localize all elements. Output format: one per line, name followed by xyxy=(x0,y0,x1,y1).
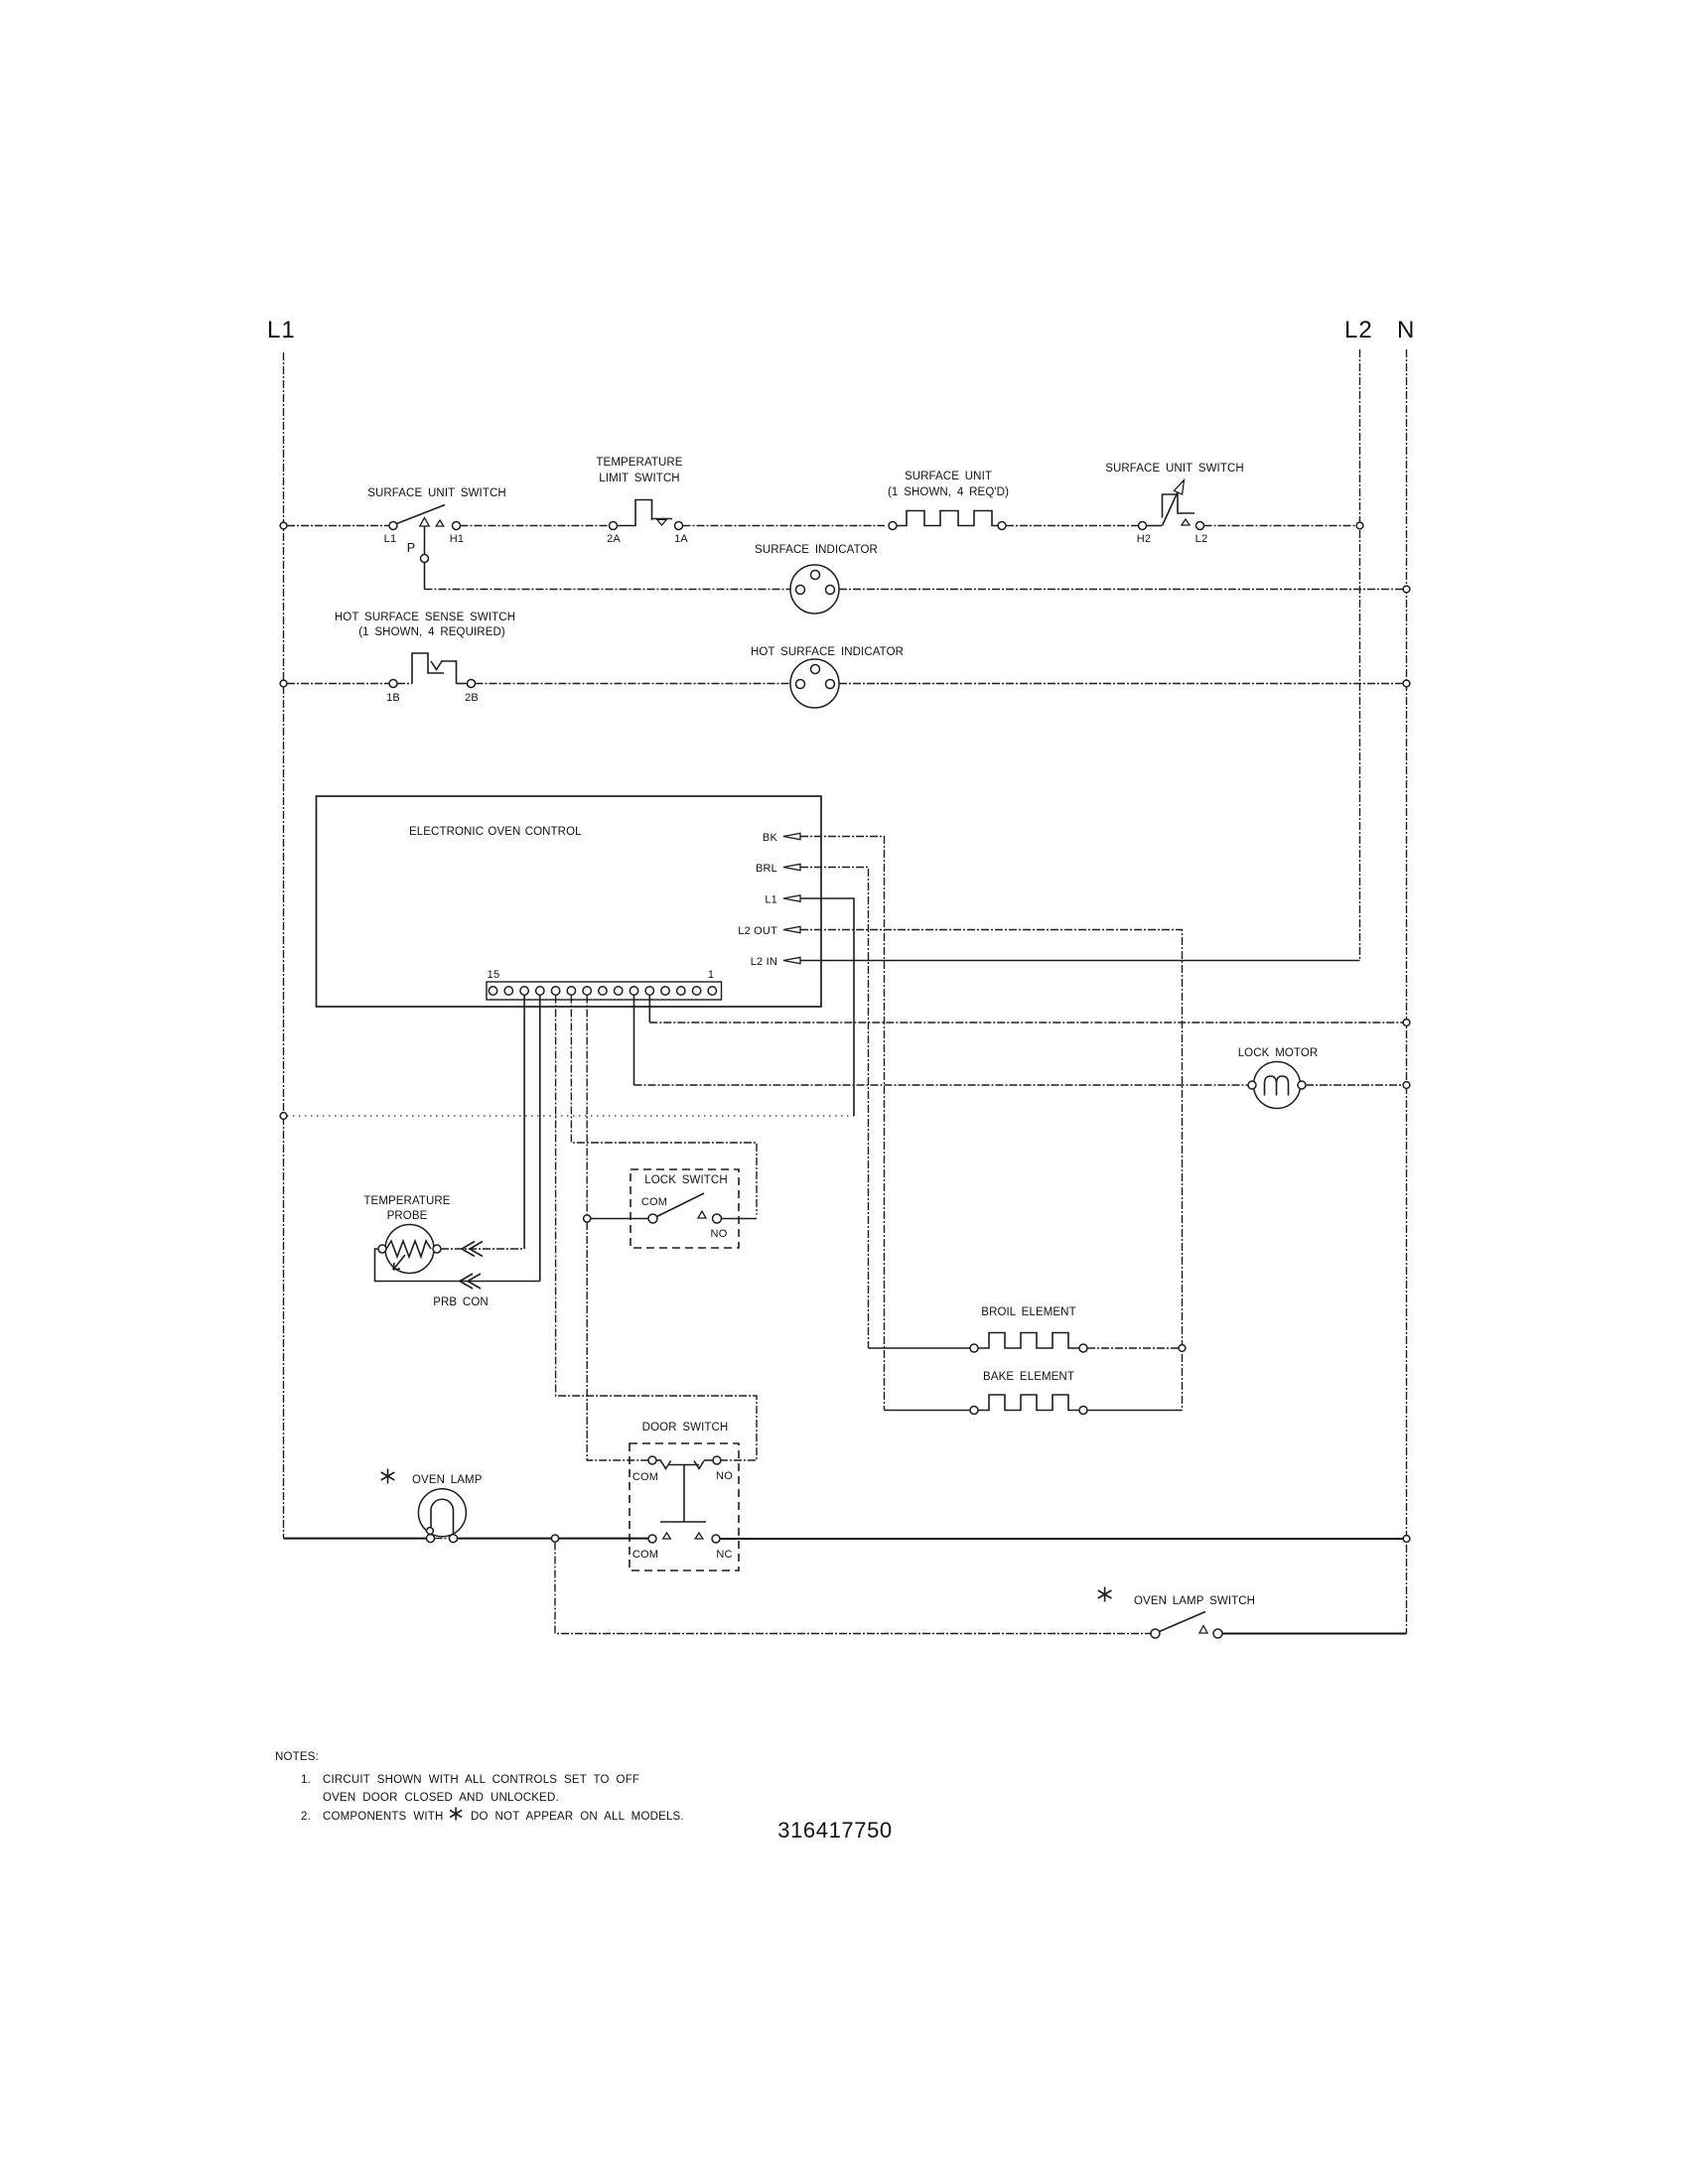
svg-text:H2: H2 xyxy=(1137,533,1151,545)
wire row1 to L2 bus xyxy=(1204,525,1357,527)
svg-text:TEMPERATURE: TEMPERATURE xyxy=(596,457,682,469)
wire BK from EOC to bake element xyxy=(800,837,885,1411)
wire bottom rail from L1 bus to oven lamp xyxy=(284,1538,427,1540)
svg-text:(1 SHOWN, 4 REQUIRED): (1 SHOWN, 4 REQUIRED) xyxy=(358,626,505,638)
svg-text:OVEN DOOR CLOSED AND UNLOCKED.: OVEN DOOR CLOSED AND UNLOCKED. xyxy=(323,1792,559,1804)
wire L1 of EOC to L1 bus xyxy=(287,1115,854,1117)
wire row2 right to N bus xyxy=(839,683,1403,685)
wire pin12 to temperature probe bottom xyxy=(539,996,541,1282)
svg-text:TEMPERATURE: TEMPERATURE xyxy=(363,1195,450,1207)
svg-text:COMPONENTS WITH: COMPONENTS WITH xyxy=(323,1811,444,1823)
node N bus hot surface indicator junction xyxy=(1403,680,1410,687)
lamp HOT SURFACE INDICATOR xyxy=(751,646,904,708)
switch TEMPERATURE LIMIT SWITCH xyxy=(596,457,688,545)
node P tap terminal xyxy=(421,555,429,563)
svg-text:NO: NO xyxy=(711,1228,728,1240)
svg-text:BROIL ELEMENT: BROIL ELEMENT xyxy=(981,1306,1075,1318)
wire N bus xyxy=(1406,349,1408,1634)
wire surface indicator row left xyxy=(425,589,791,591)
wire bottom rail under lamp xyxy=(435,1538,450,1540)
svg-text:LOCK SWITCH: LOCK SWITCH xyxy=(644,1174,727,1186)
svg-text:HOT SURFACE INDICATOR: HOT SURFACE INDICATOR xyxy=(751,646,904,658)
wire bottom rail door switch NC to N bus xyxy=(720,1538,1403,1540)
switch DOOR SWITCH xyxy=(630,1422,739,1570)
connector PRB CON chevrons bottom xyxy=(460,1274,481,1289)
wire L1 bus xyxy=(283,352,285,1539)
motor LOCK MOTOR xyxy=(1238,1047,1319,1109)
wire pin6 to lock motor xyxy=(633,996,635,1086)
pin L1 terminal of EOC xyxy=(765,894,800,906)
svg-text:1.: 1. xyxy=(301,1774,311,1786)
svg-text:1A: 1A xyxy=(674,533,688,545)
svg-text:SURFACE UNIT: SURFACE UNIT xyxy=(905,471,992,482)
svg-text:DO NOT APPEAR ON ALL MODELS.: DO NOT APPEAR ON ALL MODELS. xyxy=(471,1811,684,1823)
wire L2 OUT from EOC to elements xyxy=(800,930,1183,1411)
svg-text:NC: NC xyxy=(716,1549,732,1561)
switch SURFACE UNIT SWITCH (right) xyxy=(1105,463,1244,545)
node oven lamp switch tap junction xyxy=(551,1535,558,1542)
svg-text:P: P xyxy=(407,541,416,555)
node L2 bus row1 junction xyxy=(1356,522,1363,529)
svg-text:L2: L2 xyxy=(1344,317,1373,343)
svg-text:L2 IN: L2 IN xyxy=(751,956,777,968)
svg-text:BK: BK xyxy=(763,832,778,844)
wire oven lamp switch to N bus xyxy=(1222,1633,1407,1635)
pin BK terminal of EOC xyxy=(763,832,800,844)
wire row2 from L1 bus to hot surface sense switch xyxy=(287,683,389,685)
wire pin13 to temperature probe top xyxy=(523,996,525,1250)
svg-text:CIRCUIT SHOWN WITH ALL CONTROL: CIRCUIT SHOWN WITH ALL CONTROLS SET TO O… xyxy=(323,1774,639,1786)
svg-text:SURFACE UNIT SWITCH: SURFACE UNIT SWITCH xyxy=(1105,463,1244,475)
node L1 bus / row1 junction xyxy=(280,522,287,529)
node L1 bus EOC junction xyxy=(280,1113,287,1120)
wire BRL from EOC to broil element xyxy=(800,868,869,1349)
wire pin10 to lock switch xyxy=(571,996,757,1215)
pin L2 IN terminal of EOC xyxy=(751,956,800,968)
wire pin11 to door switch NO xyxy=(556,996,757,1461)
wire lock switch junction down to door switch COM xyxy=(587,1222,648,1460)
svg-text:NOTES:: NOTES: xyxy=(275,1751,319,1763)
svg-text:SURFACE UNIT SWITCH: SURFACE UNIT SWITCH xyxy=(367,487,506,499)
node N bus lock motor junction xyxy=(1403,1082,1410,1089)
wire row1 surface unit to right switch xyxy=(1006,525,1139,527)
svg-text:BAKE ELEMENT: BAKE ELEMENT xyxy=(983,1371,1074,1383)
svg-text:L1: L1 xyxy=(765,894,777,906)
svg-text:H1: H1 xyxy=(450,533,464,545)
svg-text:L2: L2 xyxy=(1195,533,1208,545)
svg-text:2.: 2. xyxy=(301,1811,311,1823)
svg-text:N: N xyxy=(1397,317,1415,343)
svg-text:316417750: 316417750 xyxy=(777,1818,893,1843)
wire pin9 to lock switch COM and door switch COM xyxy=(586,996,588,1215)
svg-text:COM: COM xyxy=(641,1196,667,1208)
resistor BAKE ELEMENT xyxy=(885,1371,1183,1415)
node broil/bake right junction xyxy=(1179,1345,1186,1352)
wire bottom rail junction to door switch COM xyxy=(559,1538,649,1540)
connector terminal strip P1 pins 15..1 xyxy=(487,969,722,1000)
svg-text:OVEN LAMP SWITCH: OVEN LAMP SWITCH xyxy=(1134,1595,1255,1607)
svg-text:HOT SURFACE SENSE SWITCH: HOT SURFACE SENSE SWITCH xyxy=(335,612,515,623)
svg-text:L1: L1 xyxy=(384,533,397,545)
svg-text:ELECTRONIC OVEN CONTROL: ELECTRONIC OVEN CONTROL xyxy=(409,826,582,838)
svg-text:15: 15 xyxy=(488,969,500,981)
switch OVEN LAMP SWITCH xyxy=(1134,1595,1255,1638)
wire L1 from EOC down xyxy=(800,898,854,1116)
svg-text:L1: L1 xyxy=(267,317,296,343)
pin L2 OUT terminal of EOC xyxy=(738,925,800,937)
node L1 bus row2 junction xyxy=(280,680,287,687)
svg-text:LOCK MOTOR: LOCK MOTOR xyxy=(1238,1047,1319,1059)
wire tap down to oven lamp switch xyxy=(555,1543,1151,1634)
note text NOTES xyxy=(275,1751,684,1823)
node N bus pin5 junction xyxy=(1403,1020,1410,1026)
wire lock motor to N bus xyxy=(1306,1084,1403,1086)
connector PRB CON chevrons top xyxy=(462,1242,483,1257)
wire row1 H1 to temperature limit switch xyxy=(461,525,610,527)
switch HOT SURFACE SENSE SWITCH xyxy=(335,612,515,704)
svg-text:COM: COM xyxy=(632,1549,658,1561)
svg-text:PRB CON: PRB CON xyxy=(433,1297,489,1308)
wire bottom rail lamp to junction xyxy=(458,1538,552,1540)
svg-text:2A: 2A xyxy=(607,533,621,545)
lamp OVEN LAMP xyxy=(381,1469,1112,1602)
wire row1 1A to surface unit xyxy=(683,525,886,527)
wire row2 to hot surface indicator xyxy=(476,683,791,685)
resistor SURFACE UNIT heating element xyxy=(888,471,1009,530)
switch LOCK SWITCH xyxy=(584,1169,757,1248)
svg-text:(1 SHOWN, 4 REQ'D): (1 SHOWN, 4 REQ'D) xyxy=(888,486,1009,498)
svg-text:OVEN LAMP: OVEN LAMP xyxy=(412,1474,483,1486)
wire L2 IN from EOC to L2 bus xyxy=(800,960,1360,962)
svg-text:BRL: BRL xyxy=(756,863,777,875)
svg-text:1: 1 xyxy=(708,969,714,981)
wire surface indicator row right to N bus xyxy=(839,589,1403,591)
wire P tap down from surface unit switch xyxy=(424,527,426,555)
svg-text:1B: 1B xyxy=(386,692,400,704)
wire L2 bus xyxy=(1359,349,1361,961)
thermistor TEMPERATURE PROBE xyxy=(363,1195,488,1308)
node N bus surface indicator junction xyxy=(1403,586,1410,593)
resistor BROIL ELEMENT xyxy=(869,1306,1180,1352)
svg-text:2B: 2B xyxy=(465,692,479,704)
svg-text:COM: COM xyxy=(632,1471,658,1483)
svg-text:SURFACE INDICATOR: SURFACE INDICATOR xyxy=(755,544,878,556)
lamp SURFACE INDICATOR xyxy=(755,544,878,614)
svg-text:DOOR SWITCH: DOOR SWITCH xyxy=(642,1422,729,1433)
wire row1 from L1 bus to surface unit switch xyxy=(287,525,389,527)
svg-text:NO: NO xyxy=(716,1470,733,1482)
wire P tap to surface indicator row xyxy=(424,563,426,590)
svg-text:LIMIT SWITCH: LIMIT SWITCH xyxy=(599,473,679,484)
op-amp U1 ELECTRONIC OVEN CONTROL box xyxy=(317,796,822,1007)
wire probe bottom loop to pin12 xyxy=(375,1249,540,1282)
node N bus bottom rail junction xyxy=(1403,1536,1410,1543)
wire probe top terminal to pin13 xyxy=(441,1248,524,1250)
switch SURFACE UNIT SWITCH (left) xyxy=(367,487,506,555)
wire lock motor feed xyxy=(634,1084,1249,1086)
svg-text:PROBE: PROBE xyxy=(387,1210,428,1222)
pin BRL terminal of EOC xyxy=(756,863,800,875)
wire pin5 horizontal to N bus xyxy=(649,1022,1403,1024)
svg-text:L2 OUT: L2 OUT xyxy=(738,925,777,937)
wire pin5 to N bus xyxy=(648,996,650,1024)
